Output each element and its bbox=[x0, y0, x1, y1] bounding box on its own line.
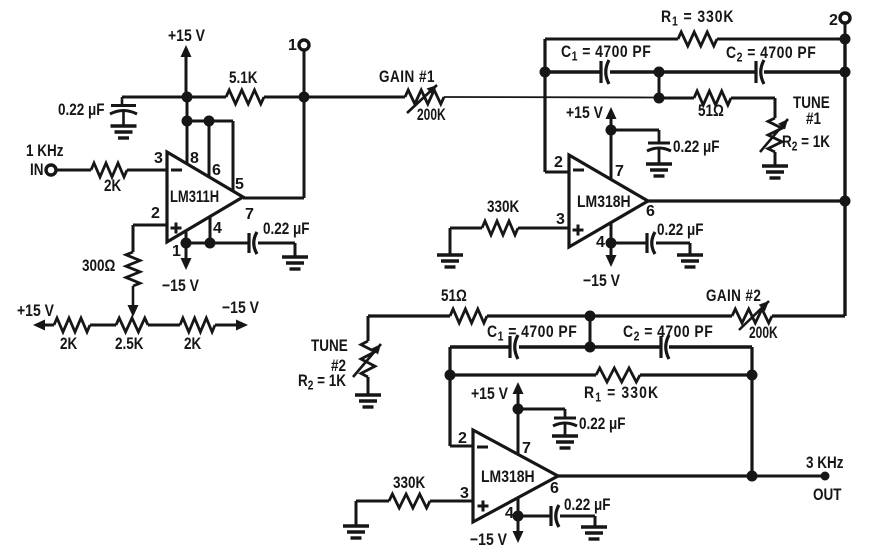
wire R1 row right (filter2) bbox=[640, 373, 752, 376]
wire 330K left lead (U2) bbox=[450, 227, 482, 230]
value label 300 ohm bbox=[82, 257, 115, 276]
svg-text:C1 = 4700 PF: C1 = 4700 PF bbox=[487, 323, 577, 344]
label 1 (node 1) bbox=[288, 37, 297, 54]
junction node1 column bbox=[299, 92, 310, 103]
svg-text:0.22 μF: 0.22 μF bbox=[58, 101, 104, 120]
op-amp U3 LM318H bbox=[473, 430, 558, 522]
value label 330K (U3) bbox=[393, 474, 425, 493]
junction pin6 tie bbox=[204, 116, 215, 127]
svg-text:51Ω: 51Ω bbox=[698, 102, 724, 121]
label IN bbox=[30, 161, 43, 180]
pin label 2 (U1) bbox=[151, 205, 160, 222]
wire down to ground (U1 cap) bbox=[294, 243, 297, 256]
capacitor 0.22uF bypass (U3) bbox=[553, 409, 577, 436]
pin label 7 (U3) bbox=[522, 440, 531, 457]
wire mid node down (filter2) bbox=[589, 316, 592, 347]
pin label 6 bbox=[212, 162, 221, 179]
pin label 3 (U3) bbox=[460, 485, 469, 502]
svg-text:7: 7 bbox=[245, 206, 254, 223]
ground (330K input U3) bbox=[343, 526, 369, 538]
wire IN to 2K bbox=[57, 169, 92, 172]
wire down to TUNE1 pot bbox=[774, 98, 777, 118]
svg-text:C1 = 4700 PF: C1 = 4700 PF bbox=[561, 43, 651, 64]
svg-text:+15 V: +15 V bbox=[471, 385, 509, 404]
ground (TUNE#2) bbox=[355, 395, 381, 407]
svg-text:330K: 330K bbox=[393, 474, 425, 493]
wire C-row c (filter2) bbox=[590, 345, 661, 348]
svg-text:−15 V: −15 V bbox=[583, 272, 621, 291]
wire pin 6 stub bbox=[208, 121, 211, 177]
resistor 2K (input) bbox=[91, 163, 127, 177]
wire C-row c (filter1) bbox=[659, 70, 756, 73]
junction +15V branch (U3) bbox=[513, 404, 524, 415]
wire 51ohm to TUNE1 bbox=[731, 97, 775, 100]
svg-text:300Ω: 300Ω bbox=[82, 257, 115, 276]
resistor R1 330K (filter2) bbox=[596, 368, 640, 382]
value label C1 = 4700 PF (filter1) bbox=[561, 43, 651, 64]
svg-text:R2 = 1K: R2 = 1K bbox=[298, 372, 346, 393]
pin label 4 (U2) bbox=[596, 234, 605, 251]
value label 200K (GAIN#2) bbox=[749, 324, 778, 342]
value label 330K (U2) bbox=[487, 198, 519, 217]
svg-text:0.22 μF: 0.22 μF bbox=[263, 220, 309, 239]
value label 51 ohm (filter2) bbox=[441, 287, 467, 306]
value label R2 = 1K (TUNE#1) bbox=[782, 133, 830, 154]
resistor 300 ohm bbox=[126, 252, 140, 286]
svg-text:1 KHz: 1 KHz bbox=[26, 142, 64, 161]
svg-text:7: 7 bbox=[615, 163, 624, 180]
label TUNE (#1) bbox=[793, 94, 830, 113]
svg-text:6: 6 bbox=[550, 480, 559, 497]
value label 0.22uF (U1 pin1) bbox=[263, 220, 309, 239]
svg-text:2K: 2K bbox=[184, 335, 201, 354]
wire 330K to pin3 (U2) bbox=[518, 227, 569, 230]
ground (U2 pin4 cap) bbox=[677, 255, 703, 267]
ground (U1 pin1 cap) bbox=[282, 257, 308, 269]
svg-text:2.5K: 2.5K bbox=[115, 335, 143, 354]
value label 0.22uF (U3 pin4) bbox=[564, 496, 610, 515]
pin label 6 (U3) bbox=[550, 480, 559, 497]
resistor 51 ohm (filter1) bbox=[694, 91, 731, 105]
power -15V (U1) bbox=[162, 243, 200, 295]
junction mid node (filter2) bbox=[585, 311, 596, 322]
capacitor C2 4700PF (filter2) bbox=[661, 335, 669, 359]
svg-text:5.1K: 5.1K bbox=[229, 69, 257, 88]
wire C-row b (filter2) bbox=[519, 345, 590, 348]
wire C-row b (filter1) bbox=[610, 70, 659, 73]
wire node1 to LM311 output bbox=[303, 97, 306, 198]
wire rail down to pin8 tie bbox=[186, 97, 189, 121]
junction R1 left (filter2) bbox=[445, 370, 456, 381]
wire filter2 left vertical bbox=[448, 347, 451, 446]
junction U3 output / right vertical bbox=[747, 471, 758, 482]
wire node1 row to GAIN#1 bbox=[304, 96, 405, 99]
svg-text:#1: #1 bbox=[806, 110, 821, 129]
resistor 2K (right bias) bbox=[180, 318, 215, 332]
potentiometer TUNE#1 R2 1K bbox=[768, 118, 782, 152]
junction +15V rail / 5.1K bbox=[182, 92, 193, 103]
wire TUNE1 to ground bbox=[774, 152, 777, 165]
wire to 51ohm (filter1) bbox=[659, 97, 694, 100]
wire pin 4 stub (U1) bbox=[209, 217, 212, 243]
svg-text:C2 = 4700 PF: C2 = 4700 PF bbox=[726, 44, 816, 65]
wire TUNE2 to 51ohm (filter2) bbox=[368, 314, 450, 317]
value label C2 = 4700 PF (filter1) bbox=[726, 44, 816, 65]
junction C-row left (filter1) bbox=[540, 67, 551, 78]
power +15V supply (LM311 stage) bbox=[168, 27, 206, 97]
resistor 5.1K bbox=[226, 90, 264, 104]
ground (330K input U2) bbox=[437, 255, 463, 267]
wire GAIN#1 to filter1 node bbox=[444, 96, 656, 99]
svg-text:7: 7 bbox=[522, 440, 531, 457]
wire mid node to GAIN#2 bbox=[590, 314, 732, 317]
svg-text:5: 5 bbox=[235, 176, 244, 193]
svg-text:LM318H: LM318H bbox=[577, 193, 631, 212]
resistor 51 ohm (filter2) bbox=[450, 309, 487, 323]
svg-text:3: 3 bbox=[556, 211, 565, 228]
wire +15V to bypass cap (U3) bbox=[518, 408, 565, 411]
junction C-row mid (filter2) bbox=[585, 342, 596, 353]
pin label 4 (U3) bbox=[505, 505, 514, 522]
power -15V arrow left (bias pot rail) bbox=[17, 302, 55, 331]
ground (TUNE#1) bbox=[762, 166, 788, 178]
junction pin4 (U1) bbox=[205, 238, 216, 249]
svg-text:OUT: OUT bbox=[813, 486, 842, 505]
wire pin 5 stub bbox=[232, 121, 235, 191]
wire pin4 to cap (U3) bbox=[518, 515, 550, 518]
svg-text:3: 3 bbox=[460, 485, 469, 502]
pin label 2 (U2) bbox=[554, 154, 563, 171]
wire cap to ground corner (U2) bbox=[656, 242, 690, 245]
wire pin 7 (U3) bbox=[517, 409, 520, 455]
op-amp U2 LM318H bbox=[569, 155, 648, 247]
svg-text:R2 = 1K: R2 = 1K bbox=[782, 133, 830, 154]
capacitor 0.22uF bypass (input stage) bbox=[110, 97, 137, 126]
pin label 5 bbox=[235, 176, 244, 193]
capacitor 0.22uF (U1 pin1) bbox=[249, 232, 257, 254]
wire pin1 to cap bbox=[186, 242, 248, 245]
value label 0.22uF (input bypass) bbox=[58, 101, 104, 120]
wire 5.1K to node 1 bbox=[264, 96, 304, 99]
wire U1 output bbox=[243, 197, 304, 200]
op-amp U1 LM311H bbox=[167, 152, 243, 242]
pin label 3 (U1) bbox=[154, 150, 163, 167]
value label 200K (GAIN#1) bbox=[417, 106, 446, 124]
wire down to ground (U2 cap) bbox=[689, 243, 692, 254]
wire bias row a bbox=[90, 324, 116, 327]
wire C-mid down to 51ohm node bbox=[658, 72, 661, 98]
junction U2 output / right vertical bbox=[840, 196, 851, 207]
wire filter1 left vertical bbox=[543, 39, 546, 172]
svg-text:LM311H: LM311H bbox=[170, 187, 219, 206]
svg-text:3 KHz: 3 KHz bbox=[806, 454, 844, 473]
wire TUNE2 corner up bbox=[367, 316, 370, 341]
svg-text:GAIN #2: GAIN #2 bbox=[706, 287, 761, 306]
node 2 terminal bbox=[829, 12, 850, 29]
svg-text:+15 V: +15 V bbox=[566, 104, 604, 123]
svg-text:R1 = 330K: R1 = 330K bbox=[584, 384, 659, 405]
wire to pin2 (U3) bbox=[450, 445, 473, 448]
pot wiper arrow (2.5K) bbox=[128, 286, 139, 317]
wire cap to ground corner bbox=[258, 242, 295, 245]
value label C2 = 4700 PF (filter2) bbox=[623, 323, 713, 344]
pot arrow GAIN#2 bbox=[739, 301, 769, 330]
junction +15V branch (U2) bbox=[606, 125, 617, 136]
capacitor C2 4700PF (filter1) bbox=[756, 60, 764, 84]
resistor 2K (left bias) bbox=[54, 318, 90, 332]
capacitor 0.22uF (U3 pin4) bbox=[551, 505, 559, 527]
wire node1 terminal down bbox=[303, 50, 306, 97]
wire pin 8 stub bbox=[186, 121, 189, 164]
svg-text:1: 1 bbox=[172, 243, 181, 260]
resistor R1 330K (filter1) bbox=[678, 32, 717, 46]
wire pin2 down to 300 ohm bbox=[132, 225, 135, 252]
wire pin 4 stub (U2) bbox=[610, 223, 613, 243]
junction R1 right (filter2) bbox=[747, 370, 758, 381]
junction R1/node2 bbox=[840, 34, 851, 45]
label GAIN #1 bbox=[379, 68, 435, 87]
svg-text:2: 2 bbox=[554, 154, 563, 171]
wire pin 1 stub (U1) bbox=[185, 231, 188, 243]
wire ground to 330K (U3) bbox=[355, 501, 358, 525]
wire pin 7 (U2) bbox=[610, 130, 613, 180]
value label 2.5K bbox=[115, 335, 143, 354]
svg-text:8: 8 bbox=[190, 150, 199, 167]
wire cap to ground corner (U3) bbox=[560, 515, 595, 518]
value label 0.22uF (U2 bypass) bbox=[673, 138, 719, 157]
pin label 6 (U2) bbox=[646, 203, 655, 220]
svg-text:R1 = 330K: R1 = 330K bbox=[661, 8, 734, 29]
wire C-row a (filter2) bbox=[450, 345, 509, 348]
power +15V (U2) bbox=[566, 104, 617, 130]
wire R1 row left (filter2) bbox=[450, 373, 596, 376]
wire U2 output bbox=[648, 199, 845, 202]
svg-text:2K: 2K bbox=[104, 177, 121, 196]
svg-text:2K: 2K bbox=[60, 335, 77, 354]
svg-text:0.22 μF: 0.22 μF bbox=[579, 415, 625, 434]
svg-text:IN: IN bbox=[30, 161, 43, 180]
junction pin4 (U2) bbox=[606, 238, 617, 249]
junction 51ohm node (filter1) bbox=[654, 93, 665, 104]
wire rail to 5.1K bbox=[187, 96, 226, 99]
potentiometer TUNE#2 R2 1K bbox=[361, 341, 375, 377]
wire R1 row right (filter1) bbox=[717, 38, 845, 41]
power +15V (U3) bbox=[471, 382, 524, 409]
svg-text:GAIN #1: GAIN #1 bbox=[379, 68, 435, 87]
svg-text:200K: 200K bbox=[417, 106, 446, 124]
value label 0.22uF (U2 pin4) bbox=[657, 221, 703, 240]
svg-text:330K: 330K bbox=[487, 198, 519, 217]
wire pin 4 stub (U3) bbox=[517, 498, 520, 516]
wire TUNE2 to ground bbox=[367, 377, 370, 394]
value label R1 = 330K (filter1) bbox=[661, 8, 734, 29]
junction pin4 (U3) bbox=[513, 511, 524, 522]
power -15V (U2) bbox=[583, 243, 621, 290]
potentiometer 2.5K bbox=[116, 318, 148, 332]
junction C-row right (filter1) bbox=[840, 67, 851, 78]
pin label 7 (U1) bbox=[245, 206, 254, 223]
label 3 KHz bbox=[806, 454, 844, 473]
svg-text:+15 V: +15 V bbox=[168, 27, 206, 46]
wire C-row d (filter2) bbox=[669, 345, 752, 348]
svg-text:0.22 μF: 0.22 μF bbox=[673, 138, 719, 157]
svg-text:−15 V: −15 V bbox=[222, 299, 260, 318]
capacitor C1 4700PF (filter1) bbox=[601, 60, 609, 84]
resistor 330K (U2 input) bbox=[482, 221, 518, 235]
svg-text:0.22 μF: 0.22 μF bbox=[657, 221, 703, 240]
node 1 terminal bbox=[299, 40, 309, 50]
wire pin4 to cap (U2) bbox=[611, 242, 646, 245]
wire GAIN#2 to right vertical bbox=[772, 314, 845, 317]
svg-text:4: 4 bbox=[213, 220, 222, 237]
ground (U3 bypass cap) bbox=[552, 436, 578, 448]
wire +15V to bypass cap (U2) bbox=[611, 129, 659, 132]
pin label 8 bbox=[190, 150, 199, 167]
wire R1 row left (filter1) bbox=[545, 38, 678, 41]
pin label 4 (U1) bbox=[213, 220, 222, 237]
value label R1 = 330K (filter2) bbox=[584, 384, 659, 405]
wire 330K to pin3 (U3) bbox=[430, 500, 473, 503]
junction pin1 (U1) bbox=[181, 238, 192, 249]
svg-text:51Ω: 51Ω bbox=[441, 287, 467, 306]
wire to pin2 (U2) bbox=[545, 171, 569, 174]
svg-text:−15 V: −15 V bbox=[162, 277, 200, 296]
svg-text:200K: 200K bbox=[749, 324, 778, 342]
wire 330K left lead (U3) bbox=[356, 500, 389, 503]
wire right vertical (node2 to GAIN#2) bbox=[843, 39, 846, 316]
svg-text:−15 V: −15 V bbox=[470, 531, 508, 545]
value label 5.1K bbox=[229, 69, 257, 88]
svg-text:TUNE: TUNE bbox=[311, 337, 348, 356]
label TUNE (#2) bbox=[311, 337, 348, 356]
wire down to ground (U3 cap) bbox=[594, 516, 597, 526]
wire C-row a (filter1) bbox=[545, 70, 600, 73]
svg-text:4: 4 bbox=[505, 505, 514, 522]
value label 0.22uF (U3 bypass) bbox=[579, 415, 625, 434]
output terminal 3KHz OUT bbox=[821, 472, 830, 481]
pin label 1 (U1) bbox=[172, 243, 181, 260]
svg-text:0.22 μF: 0.22 μF bbox=[564, 496, 610, 515]
svg-text:6: 6 bbox=[646, 203, 655, 220]
svg-text:2: 2 bbox=[829, 12, 838, 29]
potentiometer GAIN#2 200K bbox=[732, 309, 772, 323]
wire top-left rail bbox=[122, 96, 187, 99]
ground (U3 pin4 cap) bbox=[581, 527, 607, 539]
label #2 bbox=[331, 357, 346, 376]
capacitor C1 4700PF (filter2) bbox=[510, 335, 518, 359]
ground (input bypass cap) bbox=[111, 126, 137, 138]
pin label 3 (U2) bbox=[556, 211, 565, 228]
potentiometer GAIN#1 200K bbox=[405, 90, 444, 104]
pin label 7 (U2) bbox=[615, 163, 624, 180]
value label R2 = 1K (TUNE#2) bbox=[298, 372, 346, 393]
pot arrow TUNE#1 bbox=[760, 119, 788, 152]
power -15V arrow right (bias pot rail) bbox=[215, 299, 260, 331]
svg-text:+15 V: +15 V bbox=[17, 302, 55, 321]
wire output to OUT bbox=[752, 475, 822, 478]
svg-text:2: 2 bbox=[151, 205, 160, 222]
svg-text:4: 4 bbox=[596, 234, 605, 251]
capacitor 0.22uF (U2 pin4) bbox=[647, 232, 655, 254]
junction pin8 tie bbox=[182, 116, 193, 127]
wire 2K to pin 3 bbox=[127, 169, 167, 172]
value label C1 = 4700 PF (filter2) bbox=[487, 323, 577, 344]
wire pin8-pin6-pin5 tie bar bbox=[187, 120, 233, 123]
ground (U2 bypass cap) bbox=[646, 164, 672, 176]
svg-text:3: 3 bbox=[154, 150, 163, 167]
svg-text:2: 2 bbox=[458, 430, 467, 447]
input terminal IN bbox=[46, 165, 56, 175]
wire ground to 330K (U2) bbox=[449, 228, 452, 254]
label #1 bbox=[806, 110, 821, 129]
pot arrow GAIN#1 bbox=[407, 85, 437, 113]
svg-text:LM318H: LM318H bbox=[481, 468, 535, 487]
label GAIN #2 bbox=[706, 287, 761, 306]
value label 51 ohm (filter1) bbox=[698, 102, 724, 121]
wire C-row d (filter1) bbox=[764, 70, 845, 73]
label OUT bbox=[813, 486, 842, 505]
junction C-row mid (filter1) bbox=[654, 67, 665, 78]
pin label 2 (U3) bbox=[458, 430, 467, 447]
pot arrow TUNE#2 bbox=[353, 344, 381, 377]
resistor 330K (U3 input) bbox=[389, 494, 430, 508]
wire U3 output bbox=[558, 474, 752, 477]
svg-text:1: 1 bbox=[288, 37, 297, 54]
value label 2K right bbox=[184, 335, 201, 354]
power -15V (U3) bbox=[470, 516, 524, 545]
value label 2K (input) bbox=[104, 177, 121, 196]
svg-text:6: 6 bbox=[212, 162, 221, 179]
wire pin 2 (U1) bbox=[133, 224, 167, 227]
label 1 KHz bbox=[26, 142, 64, 161]
value label 2K left bbox=[60, 335, 77, 354]
wire filter2 right vertical bbox=[750, 347, 753, 476]
wire node2 stub bbox=[844, 23, 847, 39]
wire 51ohm to mid node (filter2) bbox=[487, 314, 590, 317]
wire bias row b bbox=[148, 324, 180, 327]
capacitor 0.22uF bypass (U2) bbox=[647, 130, 671, 164]
